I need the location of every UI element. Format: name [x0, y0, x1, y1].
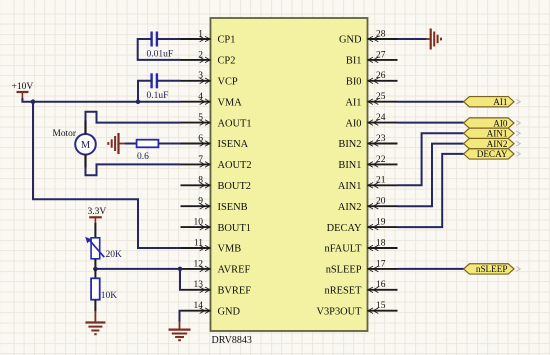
ground GND-ISENA (sideways) — [108, 133, 126, 154]
pin 9 ISENB — [181, 197, 248, 213]
svg-text:21: 21 — [376, 176, 386, 186]
svg-text:GND: GND — [339, 35, 362, 46]
pin 25 AI1 — [345, 92, 397, 108]
pin 24 AI0 — [345, 113, 397, 129]
svg-text:24: 24 — [376, 113, 386, 123]
svg-text:22: 22 — [376, 155, 386, 165]
svg-text:BIN1: BIN1 — [338, 160, 361, 171]
resistor R1 value label 0.6 — [137, 152, 149, 162]
pin 4 VMA — [181, 92, 243, 108]
svg-text:nRESET: nRESET — [325, 286, 363, 297]
pin 1 CP1 — [181, 29, 236, 45]
wire divider tap to pin 12 AVREF — [95, 268, 180, 270]
svg-text:AVREF: AVREF — [218, 265, 251, 276]
svg-text:BOUT1: BOUT1 — [218, 223, 251, 234]
svg-text:Motor: Motor — [53, 129, 77, 139]
pin 28 GND — [339, 29, 398, 45]
wire ISENA ground to resistor R1 — [125, 143, 137, 145]
potentiometer RV1 20K body — [85, 237, 104, 259]
wire C1 right plate to pin 1 CP1 — [157, 38, 181, 40]
wire +10V to VMA pin 4 — [22, 98, 180, 102]
wire 3.3V to potentiometer RV1 — [94, 223, 96, 238]
pin 10 BOUT1 — [181, 218, 251, 234]
svg-text:12: 12 — [194, 259, 204, 269]
svg-text:17: 17 — [376, 259, 386, 269]
svg-text:3: 3 — [198, 71, 203, 81]
svg-text:VCP: VCP — [218, 77, 238, 88]
svg-text:25: 25 — [376, 92, 386, 102]
port nSLEEP — [464, 264, 521, 274]
junction AVREF-BVREF branch — [178, 267, 183, 272]
capacitor C1 value label 0.01uF — [147, 50, 174, 60]
pin 23 BIN2 — [338, 134, 397, 150]
wire pin 24 AI0 to port — [398, 122, 464, 124]
svg-text:CP1: CP1 — [218, 35, 236, 46]
svg-text:28: 28 — [376, 29, 386, 39]
svg-text:+10V: +10V — [12, 82, 34, 92]
power port +10V label — [12, 82, 34, 92]
svg-text:AIN1: AIN1 — [487, 129, 508, 139]
pin 11 VMB — [181, 238, 242, 254]
svg-text:AIN1: AIN1 — [338, 181, 362, 192]
ground GND-28 (sideways) — [426, 29, 441, 50]
ground GND-IC — [169, 321, 191, 340]
wire pin 21 AIN1 to port — [398, 133, 464, 185]
svg-text:AIN2: AIN2 — [338, 202, 362, 213]
port DECAY — [464, 149, 521, 159]
motor bottom pin — [84, 155, 86, 168]
pin 12 AVREF — [181, 259, 251, 275]
svg-text:10K: 10K — [101, 291, 118, 301]
svg-text:8: 8 — [198, 176, 203, 186]
wire pin 25 AI1 to port — [398, 101, 464, 103]
svg-text:DECAY: DECAY — [477, 149, 508, 159]
U1 part name label DRV8843 — [212, 335, 252, 346]
motor top pin — [84, 120, 86, 134]
svg-text:nSLEEP: nSLEEP — [476, 264, 508, 274]
svg-text:nSLEEP: nSLEEP — [326, 265, 362, 276]
svg-text:ISENA: ISENA — [218, 139, 249, 150]
svg-text:DECAY: DECAY — [327, 223, 362, 234]
pin 7 AOUT2 — [181, 155, 252, 171]
capacitor C2 value label 0.1uF — [147, 91, 169, 101]
svg-text:DRV8843: DRV8843 — [212, 335, 252, 346]
junction divider tap — [93, 267, 98, 272]
svg-text:15: 15 — [376, 301, 386, 311]
svg-text:AI0: AI0 — [493, 118, 508, 128]
wire pin 28 GND to ground — [398, 38, 428, 40]
svg-text:0.6: 0.6 — [137, 152, 149, 162]
svg-text:11: 11 — [194, 238, 203, 248]
pin 18 nFAULT — [325, 238, 398, 254]
wire C1 left plate to pin 2 CP2 — [138, 39, 181, 60]
port AIN1 — [464, 128, 521, 138]
svg-text:BVREF: BVREF — [218, 286, 252, 297]
pin 26 BI0 — [346, 71, 398, 87]
wire pin 20 AIN2 to port — [398, 144, 464, 207]
svg-text:5: 5 — [198, 113, 203, 123]
svg-text:ISENB: ISENB — [218, 202, 248, 213]
resistor R2 bottom pin — [94, 300, 96, 312]
svg-text:1: 1 — [198, 29, 203, 39]
svg-text:6: 6 — [198, 134, 203, 144]
pin 22 BIN1 — [338, 155, 397, 171]
pin 27 BI1 — [346, 50, 398, 66]
svg-text:7: 7 — [198, 155, 203, 165]
svg-text:23: 23 — [376, 134, 386, 144]
svg-text:20K: 20K — [106, 250, 123, 260]
svg-text:2: 2 — [198, 50, 203, 60]
port AI1 — [464, 97, 521, 107]
svg-text:19: 19 — [376, 218, 386, 228]
pin 19 DECAY — [327, 218, 398, 234]
wire pin 14 GND down — [180, 311, 181, 322]
svg-text:0.1uF: 0.1uF — [147, 91, 169, 101]
wire motor top to pin 5 AOUT1 — [86, 112, 181, 123]
pin 14 GND — [181, 301, 241, 317]
svg-text:AIN2: AIN2 — [487, 139, 508, 149]
port AI0 — [464, 118, 521, 128]
wire motor bottom to pin 7 AOUT2 — [86, 164, 181, 175]
pin 8 BOUT2 — [181, 176, 251, 192]
svg-text:AI1: AI1 — [493, 97, 508, 107]
pin 6 ISENA — [181, 134, 249, 150]
svg-text:AOUT1: AOUT1 — [218, 118, 252, 129]
svg-text:VMA: VMA — [218, 97, 243, 108]
svg-text:M: M — [81, 140, 91, 151]
svg-text:26: 26 — [376, 71, 386, 81]
svg-text:16: 16 — [376, 280, 386, 290]
resistor R2 10K top pin — [94, 269, 96, 278]
svg-text:V3P3OUT: V3P3OUT — [316, 306, 362, 317]
wire C2 left plate down to VMA rail — [138, 81, 152, 102]
svg-text:13: 13 — [194, 280, 204, 290]
pin 21 AIN1 — [338, 176, 398, 192]
power port 3.3V bar — [89, 217, 102, 224]
svg-text:VMB: VMB — [218, 244, 242, 255]
pin 20 AIN2 — [338, 197, 398, 213]
svg-text:BI1: BI1 — [346, 56, 362, 67]
capacitor C2 plates — [152, 73, 157, 88]
svg-text:4: 4 — [198, 92, 203, 102]
junction on VMA rail at C2 — [136, 99, 141, 104]
svg-text:AI0: AI0 — [345, 118, 361, 129]
junction +10V rail branch — [31, 99, 36, 104]
power port 3.3V label — [88, 207, 107, 217]
pin 17 nSLEEP — [326, 259, 398, 275]
svg-text:AI1: AI1 — [345, 97, 361, 108]
svg-text:CP2: CP2 — [218, 56, 236, 67]
pin 13 BVREF — [181, 280, 252, 296]
svg-text:18: 18 — [376, 238, 386, 248]
potentiometer RV1 value label 20K — [106, 250, 123, 260]
wire +10V rail to pin 11 VMB — [33, 102, 181, 248]
motor label — [53, 129, 77, 139]
svg-text:14: 14 — [194, 301, 204, 311]
pin 3 VCP — [181, 71, 238, 87]
power port +10V bar — [17, 92, 29, 98]
wire branch to pin 13 BVREF — [179, 269, 182, 290]
resistor R2 value label 10K — [101, 291, 118, 301]
pin 5 AOUT1 — [181, 113, 252, 129]
svg-text:3.3V: 3.3V — [88, 207, 107, 217]
svg-text:BOUT2: BOUT2 — [218, 181, 251, 192]
svg-text:BI0: BI0 — [346, 77, 362, 88]
resistor R1 0.6 body — [137, 140, 159, 148]
pin 15 V3P3OUT — [316, 301, 397, 317]
motor M1 body — [75, 134, 96, 155]
potentiometer RV1 bottom pin — [94, 259, 96, 269]
wire pin 19 DECAY to port — [398, 154, 464, 227]
svg-text:10: 10 — [194, 218, 204, 228]
resistor R2 10K body — [91, 278, 100, 299]
svg-text:GND: GND — [218, 306, 241, 317]
svg-text:nFAULT: nFAULT — [325, 244, 363, 255]
wire resistor R1 to pin 6 ISENA — [158, 143, 180, 145]
wire pin 17 nSLEEP to port — [398, 268, 465, 270]
svg-text:BIN2: BIN2 — [338, 139, 361, 150]
svg-text:9: 9 — [198, 197, 203, 207]
ground GND-R2 — [85, 311, 105, 334]
svg-text:27: 27 — [376, 50, 386, 60]
pin 16 nRESET — [325, 280, 398, 296]
svg-text:20: 20 — [376, 197, 386, 207]
IC U1 DRV8843 body — [211, 18, 368, 331]
svg-text:0.01uF: 0.01uF — [147, 50, 174, 60]
port AIN2 — [464, 138, 521, 148]
pin 2 CP2 — [181, 50, 236, 66]
wire C2 right plate to pin 3 VCP — [157, 80, 181, 82]
svg-text:AOUT2: AOUT2 — [218, 160, 252, 171]
capacitor C1 plates — [152, 32, 157, 47]
